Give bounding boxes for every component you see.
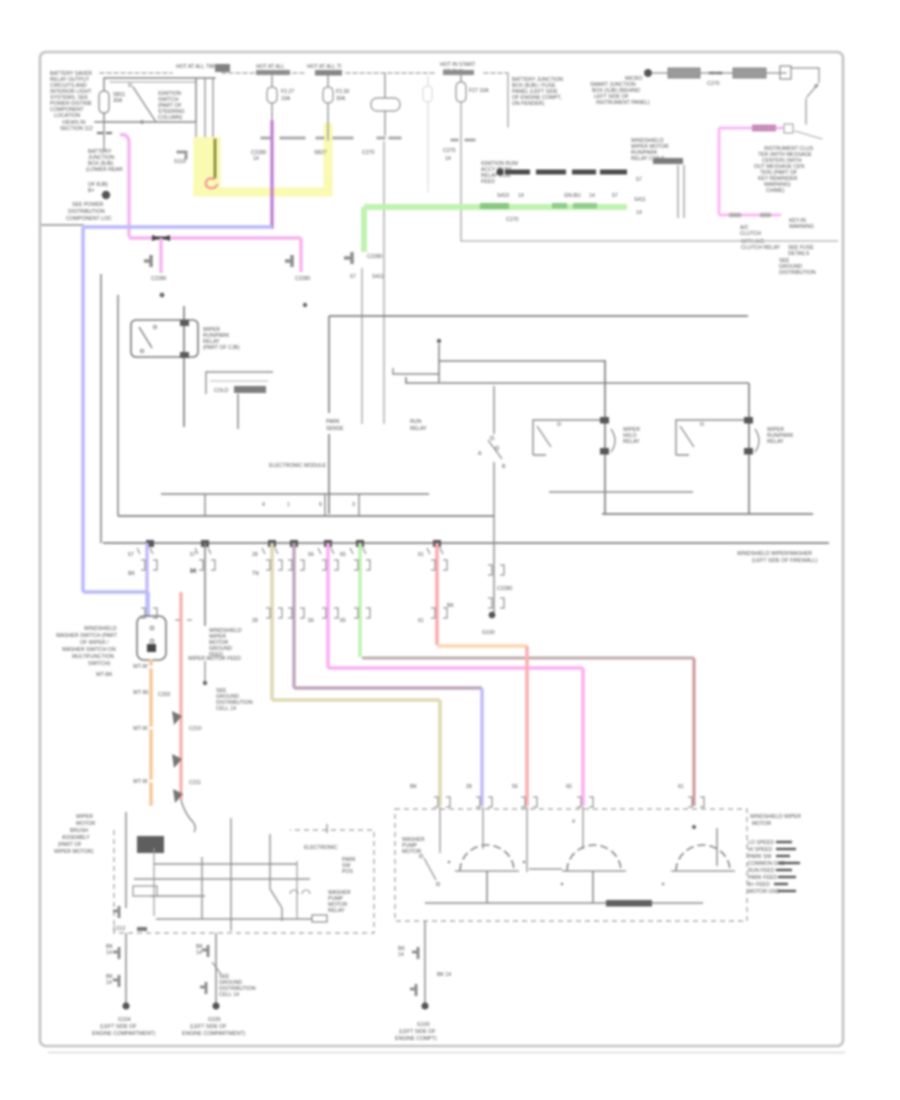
wire label dark on magenta xyxy=(752,125,776,132)
wire green corner down xyxy=(361,207,367,252)
svg-text:WARNING: WARNING xyxy=(789,224,814,230)
park switch wire xyxy=(493,386,495,434)
node ground dot 1 xyxy=(122,1002,129,1009)
svg-text:SWITCH): SWITCH) xyxy=(88,661,110,667)
svg-text:ENGINE COMPARTMENT): ENGINE COMPARTMENT) xyxy=(92,1031,155,1037)
svg-text:B: B xyxy=(502,464,506,470)
faint spare fuse column xyxy=(427,76,429,192)
svg-text:C202: C202 xyxy=(158,692,171,698)
svg-text:57: 57 xyxy=(636,177,642,183)
svg-text:HOT AT ALL TI: HOT AT ALL TI xyxy=(307,64,341,70)
connector end of chain xyxy=(780,66,791,79)
svg-text:4: 4 xyxy=(262,502,265,508)
resistor box 2 xyxy=(733,68,766,78)
fuse F4 feed xyxy=(460,74,462,81)
svg-text:SB27: SB27 xyxy=(314,150,327,156)
battery junction box dashed border right edge xyxy=(507,74,509,127)
motor winding arc 2 xyxy=(567,845,621,871)
module internal verticals xyxy=(202,818,282,931)
ground drop 1 wire xyxy=(125,933,127,1003)
svg-text:C212: C212 xyxy=(113,926,126,932)
relay pad top xyxy=(180,320,189,326)
svg-text:MOTOR: MOTOR xyxy=(752,821,771,827)
module extra verticals xyxy=(154,848,297,919)
wire green run feed xyxy=(364,204,627,210)
wire periwinkle vertical to motor xyxy=(480,688,483,806)
hi-lo relay pad bottom xyxy=(600,448,609,455)
svg-text:65: 65 xyxy=(340,552,346,558)
svg-text:COMPONENT LOC: COMPONENT LOC xyxy=(66,216,112,222)
svg-text:POS: POS xyxy=(342,869,353,875)
multifunction switch box xyxy=(137,616,166,660)
svg-text:DETAILS: DETAILS xyxy=(788,251,810,257)
connector C2280 on purple xyxy=(262,137,304,140)
svg-text:PARK: PARK xyxy=(326,419,340,425)
connector mid chain xyxy=(710,72,721,74)
svg-text:BK: BK xyxy=(190,569,197,575)
wire stub red into module xyxy=(526,807,528,872)
svg-text:BK 14: BK 14 xyxy=(437,972,451,978)
ground 2 lever xyxy=(212,962,221,974)
svg-text:HOT IN START: HOT IN START xyxy=(440,62,476,68)
arc 1 drop xyxy=(486,871,488,903)
wire under relays xyxy=(549,491,693,493)
washer relay small box xyxy=(133,886,157,896)
svg-text:C2280: C2280 xyxy=(151,276,166,282)
switch contact dots xyxy=(150,626,154,630)
fuse F2 body xyxy=(267,87,277,103)
arc 2 base xyxy=(562,870,626,872)
svg-text:DISTRIBUTION: DISTRIBUTION xyxy=(68,209,105,215)
long vertical left 1 xyxy=(100,274,102,543)
wire gray drop xyxy=(204,543,206,626)
node bowtie junction on pink xyxy=(152,237,170,240)
connector row 1 marks xyxy=(137,548,504,575)
svg-text:GN-BU: GN-BU xyxy=(564,193,581,199)
module small box xyxy=(312,915,327,922)
run-park relay coil xyxy=(755,429,759,452)
svg-text:INSTRUMENT PANEL): INSTRUMENT PANEL) xyxy=(596,100,650,106)
hi-lo relay lever xyxy=(537,426,551,447)
svg-text:C2280: C2280 xyxy=(367,254,382,260)
svg-text:CLUTCH RELAY: CLUTCH RELAY xyxy=(741,245,781,251)
wire red vertical to motor xyxy=(525,646,529,806)
ignition switch box xyxy=(95,78,215,122)
bus drop 2 xyxy=(324,494,326,516)
svg-text:57: 57 xyxy=(190,552,196,558)
svg-text:SENSE: SENSE xyxy=(326,426,344,432)
connector marks at module top xyxy=(434,797,704,807)
svg-text:65: 65 xyxy=(566,784,572,790)
svg-text:56: 56 xyxy=(308,618,314,624)
label bracket line xyxy=(795,131,822,139)
connector on module left wire xyxy=(113,906,119,918)
svg-text:MULTIFUNCTION: MULTIFUNCTION xyxy=(72,654,114,660)
node motor dot xyxy=(692,825,696,829)
wire through wiper relay xyxy=(183,306,185,427)
wire orange washer feed xyxy=(149,659,152,806)
svg-text:S411: S411 xyxy=(372,274,384,280)
link between arcs xyxy=(529,868,562,870)
svg-text:(LOWER REAR: (LOWER REAR xyxy=(86,167,123,173)
wire internal horizontal mid xyxy=(393,368,439,374)
svg-text:MICRO: MICRO xyxy=(625,76,642,82)
svg-text:28: 28 xyxy=(252,552,258,558)
svg-text:65: 65 xyxy=(340,618,346,624)
svg-text:SECTION 112: SECTION 112 xyxy=(60,126,93,132)
svg-text:14: 14 xyxy=(445,156,451,162)
park switch wire lower xyxy=(493,462,495,543)
cold advance bracket xyxy=(206,372,273,394)
bus drop 1 xyxy=(204,494,206,516)
bold pin label xyxy=(653,158,683,164)
svg-text:B+ FEED: B+ FEED xyxy=(748,882,770,888)
connector marks ground drop 1 xyxy=(113,947,119,987)
svg-text:C210: C210 xyxy=(189,726,202,732)
switch pad xyxy=(147,644,156,652)
svg-text:CLUTCH: CLUTCH xyxy=(740,231,761,237)
wire park sense drop xyxy=(438,344,440,382)
svg-text:CELL 14: CELL 14 xyxy=(219,992,239,998)
svg-text:S110: S110 xyxy=(174,159,186,165)
fuse F4 body xyxy=(456,82,466,102)
pin dots inside module xyxy=(448,861,450,863)
wire BJB bottom rail xyxy=(461,240,838,242)
wire fuse F3 lead into yellow xyxy=(327,103,329,140)
svg-text:(PART OF CJB): (PART OF CJB) xyxy=(203,345,240,351)
svg-text:(LEFT SIDE OF: (LEFT SIDE OF xyxy=(100,1024,137,1030)
wire CB lead down xyxy=(384,111,386,135)
svg-text:MOTOR GND: MOTOR GND xyxy=(748,889,780,895)
wire dark bold run feed text line xyxy=(505,170,627,175)
wire cold advance drop xyxy=(237,394,239,429)
svg-text:WT-96: WT-96 xyxy=(133,690,148,696)
arc 1 base xyxy=(455,870,519,872)
svg-text:WT-96: WT-96 xyxy=(133,664,148,670)
svg-text:ENGINE COMPARTMENT): ENGINE COMPARTMENT) xyxy=(182,1031,245,1037)
svg-text:RELAY: RELAY xyxy=(767,439,784,445)
svg-text:1: 1 xyxy=(287,502,290,508)
wiper motor module dashed border xyxy=(395,809,747,921)
svg-text:61: 61 xyxy=(418,552,424,558)
node gray splice dot xyxy=(203,681,207,685)
svg-text:14: 14 xyxy=(106,980,112,986)
svg-text:6: 6 xyxy=(319,502,322,508)
svg-text:PARK FEED: PARK FEED xyxy=(748,875,777,881)
wire vertical bundle line 2 xyxy=(204,78,206,140)
svg-text:PARK SW: PARK SW xyxy=(748,854,772,860)
svg-text:BK: BK xyxy=(128,571,135,577)
module internal wiring xyxy=(134,864,312,919)
svg-text:CELL 14: CELL 14 xyxy=(216,706,236,712)
wire internal horizontal 2 xyxy=(406,377,749,383)
svg-text:WINDSHIELD WIPER: WINDSHIELD WIPER xyxy=(750,814,801,820)
svg-text:B+: B+ xyxy=(88,188,95,194)
svg-text:WT-96: WT-96 xyxy=(133,726,148,732)
resistor box 1 xyxy=(668,68,700,78)
svg-text:C270: C270 xyxy=(443,148,456,154)
svg-text:CHIME): CHIME) xyxy=(766,188,785,194)
connector on pink branch xyxy=(144,255,151,267)
key-in switch lever xyxy=(807,84,818,97)
svg-text:WINDSHIELD: WINDSHIELD xyxy=(84,626,117,632)
svg-text:F27 10A: F27 10A xyxy=(469,88,489,94)
wire pink horizontal xyxy=(129,236,301,239)
connector row 2 marks xyxy=(141,598,504,618)
dark dash bottom edge xyxy=(137,927,147,931)
hi-lo relay frame xyxy=(533,420,600,455)
wire magenta bottom horizontal xyxy=(719,214,781,217)
connector wedge 3 on red wire xyxy=(173,789,183,803)
key-in switch feed bar xyxy=(791,68,819,82)
svg-text:S411: S411 xyxy=(634,197,646,203)
fuse F1 body xyxy=(99,91,109,113)
wire khaki drop xyxy=(272,543,440,806)
svg-text:WIPER: WIPER xyxy=(76,814,93,820)
wire vertical bundle line 3 xyxy=(212,78,214,140)
run-park relay frame xyxy=(676,420,744,455)
svg-text:14: 14 xyxy=(253,156,259,162)
connector label left of link xyxy=(178,152,186,158)
connector marks on magenta bottom xyxy=(729,213,771,218)
fuse F3 feed xyxy=(327,76,329,87)
svg-text:MOTOR: MOTOR xyxy=(402,849,421,855)
svg-text:14: 14 xyxy=(518,193,524,199)
connector on pink right branch xyxy=(285,255,292,267)
park switch lever xyxy=(488,440,502,459)
wire switch to connector xyxy=(805,99,807,124)
svg-text:S410: S410 xyxy=(497,193,509,199)
svg-text:HOT AT ALL: HOT AT ALL xyxy=(256,64,285,70)
battery junction box dashed border top xyxy=(100,72,508,74)
node park splice dot xyxy=(489,612,496,619)
svg-text:WT-96: WT-96 xyxy=(133,779,148,785)
svg-text:WASHER SWITCH ON: WASHER SWITCH ON xyxy=(62,647,116,653)
fuse F3 body xyxy=(323,87,333,103)
orange wire break marks xyxy=(147,667,155,807)
connector green wire bottom xyxy=(344,252,352,264)
wire lavender drop xyxy=(145,543,148,617)
svg-text:C270: C270 xyxy=(506,217,519,223)
wire magenta key-in feed horizontal xyxy=(719,127,783,130)
svg-text:BRUSH: BRUSH xyxy=(70,828,88,834)
svg-text:(PART OF: (PART OF xyxy=(58,842,82,848)
svg-text:14: 14 xyxy=(196,950,202,956)
svg-text:RUN FEED: RUN FEED xyxy=(748,868,775,874)
wire dull red vertical to motor xyxy=(692,658,695,806)
wire green drop xyxy=(358,543,362,657)
svg-text:4: 4 xyxy=(572,819,575,825)
wire ground stub to frame xyxy=(42,224,83,226)
red wire hook into module xyxy=(181,800,195,832)
motor module bottom wire xyxy=(425,902,703,904)
fuse F2 feed xyxy=(271,76,273,87)
run-park relay pad top xyxy=(744,417,753,424)
svg-text:HI SPEED: HI SPEED xyxy=(748,847,772,853)
wire fuse F4 lead xyxy=(460,103,462,241)
node battery splice dot xyxy=(102,191,110,199)
node ground dot 2 xyxy=(212,1002,219,1009)
wire label dark segments on green xyxy=(480,203,509,209)
svg-text:ELECTRONIC: ELECTRONIC xyxy=(304,845,338,851)
wire red drop xyxy=(435,543,439,645)
ignition switch lever xyxy=(133,87,156,122)
wire pink branch down left xyxy=(159,238,162,273)
electronic module bottom edge xyxy=(602,513,813,515)
svg-text:F2.27: F2.27 xyxy=(281,89,294,95)
motor winding arc 1 xyxy=(460,845,514,871)
svg-text:WASHER SWITCH (PART: WASHER SWITCH (PART xyxy=(56,633,118,639)
svg-text:LOCATION: LOCATION xyxy=(54,113,80,119)
svg-text:WT-BK: WT-BK xyxy=(96,672,113,678)
svg-text:F2.30: F2.30 xyxy=(336,89,349,95)
arc 3 feed xyxy=(716,828,718,866)
wire fuse F2 to purple xyxy=(271,103,273,124)
run-park relay lever xyxy=(680,426,694,447)
long vertical left 2 xyxy=(117,295,119,516)
svg-text:C211: C211 xyxy=(189,780,201,786)
svg-text:C2280: C2280 xyxy=(497,586,512,592)
svg-text:28: 28 xyxy=(252,618,258,624)
dark label on bottom wire xyxy=(606,900,652,907)
svg-text:10A: 10A xyxy=(281,96,291,102)
connector magenta top xyxy=(784,124,793,133)
ground drop motor wire xyxy=(424,921,426,1003)
washer pump switch lever xyxy=(424,858,436,880)
svg-text:57: 57 xyxy=(612,193,618,199)
wire internal horizontal 1 xyxy=(439,360,605,362)
svg-text:G105: G105 xyxy=(208,1017,221,1023)
node junction dot ignition chain xyxy=(644,69,652,77)
hi-lo relay pad top xyxy=(600,417,609,424)
svg-text:(LEFT SIDE OF FIREWALL): (LEFT SIDE OF FIREWALL) xyxy=(752,558,818,564)
svg-text:G100: G100 xyxy=(482,630,495,636)
bus line B xyxy=(118,515,494,517)
node bundle connector top xyxy=(215,64,230,72)
bus line C xyxy=(103,542,829,544)
arc 3 base xyxy=(671,870,735,872)
svg-text:3: 3 xyxy=(352,502,355,508)
svg-text:FEED: FEED xyxy=(481,179,495,185)
svg-text:A: A xyxy=(478,451,482,457)
svg-text:WINDSHIELD WIPER/WASHER: WINDSHIELD WIPER/WASHER xyxy=(737,551,812,557)
svg-text:WIPER MOTOR FEED: WIPER MOTOR FEED xyxy=(188,656,241,662)
fusible link element olive xyxy=(214,140,217,177)
svg-text:ENGINE COMPT): ENGINE COMPT) xyxy=(395,1036,437,1042)
svg-text:14: 14 xyxy=(106,950,112,956)
svg-text:TN: TN xyxy=(252,571,259,577)
electronic module big box top xyxy=(329,315,748,317)
svg-text:SEE POWER: SEE POWER xyxy=(72,202,104,208)
wiper relay lever xyxy=(139,327,152,348)
wire stub magenta into module xyxy=(582,807,584,849)
wire twin vertical 2 xyxy=(683,165,685,218)
connector C below fuse F1 xyxy=(98,132,111,134)
dense text block right xyxy=(748,840,785,895)
circuit breaker CB body xyxy=(371,98,400,111)
svg-text:(LEFT SIDE OF: (LEFT SIDE OF xyxy=(190,1024,227,1030)
bus drop 3 xyxy=(358,494,360,516)
svg-text:C270: C270 xyxy=(362,150,375,156)
connector wedge 1 on red wire xyxy=(172,711,182,725)
wire park relay vertical 1 xyxy=(361,268,363,424)
svg-text:61: 61 xyxy=(678,784,684,790)
wire yellow fusible link highlight right vertical xyxy=(324,123,333,196)
node splice dot pink right xyxy=(303,303,307,307)
wire purple run relay feed xyxy=(270,122,274,227)
node motor ground dot xyxy=(421,1002,428,1009)
wire yellow fusible link highlight horizontal xyxy=(193,188,332,197)
wire stub tan into module xyxy=(439,807,441,853)
svg-text:30A: 30A xyxy=(336,96,346,102)
connector wedge 2 on red wire xyxy=(172,754,182,768)
svg-text:14: 14 xyxy=(636,210,642,216)
svg-text:61: 61 xyxy=(418,618,424,624)
module pin tick top xyxy=(326,824,328,833)
svg-text:RUN: RUN xyxy=(410,419,421,425)
dark bars under HOT labels xyxy=(256,70,290,75)
wire gray long vertical from CB xyxy=(383,142,385,268)
svg-text:14: 14 xyxy=(589,193,595,199)
run-park relay wire xyxy=(748,383,750,514)
svg-text:G104: G104 xyxy=(118,1017,131,1023)
junction squares on bus C xyxy=(146,540,154,547)
wire pink ignition hook xyxy=(120,135,129,237)
wire module left vertical xyxy=(125,812,127,908)
arc 2 drop xyxy=(592,871,594,903)
hi-lo relay wire xyxy=(604,360,606,514)
wire twin vertical 1 xyxy=(677,165,679,218)
svg-text:56: 56 xyxy=(308,552,314,558)
wire vertical bundle line 1 xyxy=(195,78,197,140)
run-park relay pad bottom xyxy=(744,448,753,455)
svg-text:COLUMN): COLUMN) xyxy=(158,115,182,121)
motor winding arc 3 xyxy=(676,845,730,871)
svg-text:(LEFT SIDE OF: (LEFT SIDE OF xyxy=(399,1029,436,1035)
svg-text:OF WIPER /: OF WIPER / xyxy=(80,640,109,646)
wire stub periwinkle into module xyxy=(482,807,484,849)
svg-text:BK: BK xyxy=(410,784,417,790)
wire magenta drop xyxy=(328,543,583,806)
svg-text:56: 56 xyxy=(512,784,518,790)
wire park relay vertical 2 xyxy=(383,268,385,424)
wire gray-red horizontal to motor xyxy=(362,657,694,660)
connector row labels xyxy=(128,552,424,624)
connector C on yellow column xyxy=(317,137,352,140)
svg-text:COLD: COLD xyxy=(214,388,229,394)
module input pad xyxy=(137,836,164,853)
wire blue horizontal xyxy=(83,225,272,229)
small dome marks xyxy=(290,890,310,894)
svg-text:ON FENDER): ON FENDER) xyxy=(512,101,545,107)
svg-text:57: 57 xyxy=(128,552,134,558)
park switch drop wire xyxy=(493,543,495,613)
svg-text:G100: G100 xyxy=(417,1022,430,1028)
node dot inside box xyxy=(437,339,441,343)
bus line A xyxy=(161,493,429,495)
wire blue jog to switch xyxy=(83,592,148,617)
wire salmon horizontal xyxy=(437,644,527,647)
wire bundle from ignition box to fuses xyxy=(110,81,196,83)
svg-text:BK: BK xyxy=(447,603,454,609)
connector on CB wire xyxy=(378,137,400,140)
connector marks ground drop 2 xyxy=(200,945,208,994)
node dark feed dot xyxy=(496,168,503,175)
wire blue vertical long xyxy=(81,227,85,592)
svg-text:28: 28 xyxy=(466,784,472,790)
svg-text:ASSEMBLY: ASSEMBLY xyxy=(62,835,90,841)
fusible link coil red xyxy=(206,178,217,188)
